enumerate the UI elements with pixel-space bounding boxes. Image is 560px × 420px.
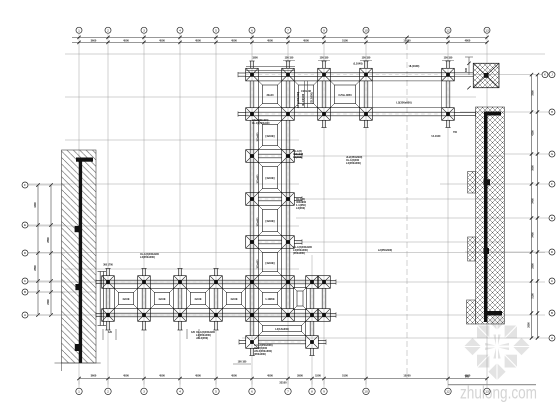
under-arm dim flags [103,329,199,340]
top dimension ticks and text [77,36,488,44]
bottom arm stubs down [105,321,218,330]
bottom dimension line [79,379,536,385]
svg-text:300 1700: 300 1700 [103,265,113,267]
stem bottom column beam [310,321,314,335]
svg-text:XL-1(2)400x900: XL-1(2)400x900 [252,122,270,125]
svg-text:(350x600): (350x600) [293,251,305,255]
svg-text:L2(350x600): L2(350x600) [346,161,361,165]
svg-text:13: 13 [485,28,489,32]
svg-text:(L1040): (L1040) [353,62,362,66]
svg-text:2800: 2800 [47,237,50,243]
vertical grid lines [79,34,487,385]
bay 7-9 vertical labels [297,92,314,109]
right wall pilaster 1 [468,172,476,194]
top dimension lines [72,37,487,42]
svg-text:4500: 4500 [195,374,201,378]
label cluster above bottom arm [140,252,159,259]
top arm capitals row 1 [246,68,455,81]
label cluster below stem bottom [254,343,273,356]
svg-text:JZL2(350x600): JZL2(350x600) [297,92,300,109]
corner column dim flag [465,57,473,89]
svg-text:3: 3 [143,390,145,394]
svg-text:4500: 4500 [123,374,129,378]
svg-text:150 150: 150 150 [285,57,294,60]
svg-text:3100: 3100 [532,293,535,299]
svg-text:600: 600 [465,67,468,72]
bottom arm right stubs [330,279,336,317]
stem bay labels [258,132,275,269]
svg-text:4200: 4200 [532,130,535,136]
label cluster right of stem mid [296,197,307,210]
stem right stubs [294,153,302,244]
svg-text:8: 8 [311,390,313,394]
bottom arm left edge beam [98,272,107,326]
svg-text:13: 13 [485,390,489,394]
bottom arm left stubs to wall [96,279,102,317]
svg-text:3000: 3000 [532,165,535,171]
top arm column beams [250,81,450,108]
svg-text:E: E [551,216,553,220]
svg-text:4500: 4500 [303,38,309,42]
svg-text:2900: 2900 [532,263,535,269]
svg-text:UL(1040): UL(1040) [409,65,420,68]
svg-text:L2(350): L2(350) [293,155,302,159]
svg-text:L2(350x600): L2(350x600) [396,101,411,105]
svg-text:(350x600): (350x600) [254,352,266,356]
svg-text:5100: 5100 [342,38,348,42]
stem coffer bay E-C [258,248,281,275]
label cluster right of line G [346,155,362,165]
svg-text:12: 12 [446,390,450,394]
svg-text:300x600: 300x600 [258,217,260,227]
svg-text:JZL2(350): JZL2(350) [311,92,314,103]
svg-text:10200: 10200 [403,38,411,42]
svg-text:4500: 4500 [231,374,237,378]
svg-text:4: 4 [179,28,181,32]
label cluster below bottom arm left [196,330,215,340]
stem bottom row beam [258,340,305,344]
svg-text:4500: 4500 [231,38,237,42]
top arm stubs down [321,120,450,127]
svg-text:12: 12 [446,28,450,32]
stem bottom stubs down [249,348,314,355]
svg-text:3600: 3600 [91,38,97,42]
svg-text:7: 7 [287,390,289,394]
svg-text:2: 2 [107,28,109,32]
svg-text:4x10E: 4x10E [194,298,202,301]
stem coffer bay G-F [258,162,281,192]
svg-text:L2(350): L2(350) [296,206,305,210]
top arm right stub row 2 [454,111,475,116]
svg-text:4500: 4500 [267,374,273,378]
right dimension ticks and text [528,73,540,340]
horizontal grid lines [28,54,549,338]
svg-text:300x600: 300x600 [258,259,260,269]
svg-text:3: 3 [143,28,145,32]
top arm coffer bay 6-7 [258,81,281,108]
svg-text:4: 4 [179,390,181,394]
svg-text:L2(350x600): L2(350x600) [140,255,155,259]
watermark logo [464,313,530,381]
svg-text:4x10E: 4x10E [122,298,130,301]
left wall column blips [75,226,81,351]
svg-text:300x600: 300x600 [258,132,260,142]
svg-text:[4x10E]: [4x10E] [266,220,275,223]
top arm coffer bay 7-9 [294,81,317,108]
top arm beam to corner column [454,73,473,77]
svg-text:[4x10E]: [4x10E] [266,262,275,265]
svg-text:1: 1 [78,390,80,394]
svg-text:9: 9 [323,28,325,32]
svg-text:B: B [551,311,553,315]
left wall hatch [62,150,97,363]
top arm large bay edge [372,81,441,108]
svg-text:4500: 4500 [159,38,165,42]
dims 180-180 below arm [233,361,251,365]
right wall pilaster 3 [467,300,476,324]
svg-text:L2(3.6x600): L2(3.6x600) [275,328,289,331]
stem column beams [250,120,290,335]
svg-text:30x40: 30x40 [267,94,275,97]
left grid bubbles [22,182,65,318]
svg-text:H: H [551,110,553,114]
bottom arm capitals row B1 [102,276,331,289]
svg-text:4200: 4200 [34,202,37,208]
svg-text:2200: 2200 [47,299,50,305]
svg-text:E: E [24,223,26,227]
svg-text:180 180: 180 180 [238,361,247,364]
svg-text:XL-1(2)400: XL-1(2)400 [302,93,305,106]
right wall hatch [476,107,505,324]
right dimension line [532,75,538,338]
stem bottom capitals [246,336,319,349]
svg-text:F: F [24,183,26,187]
svg-text:C2%L.0850: C2%L.0850 [338,94,352,97]
svg-text:1: 1 [78,28,80,32]
svg-text:10200: 10200 [403,374,411,378]
svg-text:1-1WKE: 1-1WKE [265,298,275,301]
top grid bubbles [76,27,490,33]
svg-text:6: 6 [251,390,253,394]
svg-text:5100: 5100 [342,374,348,378]
svg-text:zhulong.com: zhulong.com [460,382,537,402]
svg-text:3900: 3900 [532,90,535,96]
left wall bottom cut line [55,363,101,371]
bottom arm column beams [106,288,326,308]
stem coffer bay H-G [258,120,281,149]
svg-text:9: 9 [323,390,325,394]
label cluster right of stem lower [293,245,312,255]
svg-text:1500: 1500 [315,374,321,378]
top arm left stubs [238,72,246,117]
bottom arm bay labels [122,298,275,301]
bottom arm stubs up [105,269,218,276]
svg-text:4500: 4500 [123,38,129,42]
svg-text:700: 700 [453,131,458,134]
top arm coffer bay 9-10 [330,81,359,108]
svg-text:[4x10E]: [4x10E] [266,135,275,138]
svg-text:5: 5 [215,390,217,394]
svg-text:900: 900 [465,376,470,379]
left wall thick line [76,158,93,364]
svg-text:10: 10 [364,390,368,394]
svg-text:10: 10 [364,28,368,32]
bottom arm row beams [102,280,331,317]
svg-text:L2(350x600): L2(350x600) [378,249,392,252]
svg-text:4800: 4800 [465,38,471,42]
svg-text:2800: 2800 [34,265,37,271]
svg-text:JZL2(350): JZL2(350) [196,336,208,340]
stem capitals [246,150,295,249]
svg-text:2900: 2900 [297,374,303,378]
svg-text:7: 7 [287,28,289,32]
stem coffer bay F-E [258,205,281,235]
svg-text:5: 5 [215,28,217,32]
right wall column blips [484,179,491,254]
bottom dimension ticks and text [77,374,488,385]
svg-text:F: F [551,182,553,186]
svg-text:4500: 4500 [267,38,273,42]
label cluster right of stem upper [293,149,304,159]
top arm row beams [246,73,455,116]
svg-text:32100: 32100 [279,380,287,384]
left dimension lines [38,185,51,314]
stem row beams [258,154,281,244]
bottom arm coffers [114,288,306,310]
svg-text:1500: 1500 [252,57,258,60]
hatched corner column [473,63,499,87]
top arm bay labels [267,90,353,97]
svg-text:6: 6 [251,28,253,32]
right wall thick line [484,112,502,323]
svg-text:2600: 2600 [528,322,531,328]
bottom arm capitals row B2 [102,309,331,322]
svg-text:B: B [24,290,26,294]
svg-text:2: 2 [107,390,109,394]
svg-text:3400: 3400 [532,198,535,204]
bottom grid bubbles [76,379,490,395]
top arm bay rib [305,81,308,108]
svg-text:150 150: 150 150 [444,57,453,60]
svg-text:4x10E: 4x10E [158,298,166,301]
svg-text:4500: 4500 [195,38,201,42]
stem bottom row stubs sideways [239,339,326,344]
svg-text:3600: 3600 [91,374,97,378]
top arm capitals row 2 [246,108,455,121]
right grid bubbles [542,72,555,341]
left dimension ticks and text [34,183,53,316]
svg-text:UL1040: UL1040 [432,135,442,138]
svg-text:150 150: 150 150 [320,57,329,60]
stem bottom coffer [258,321,305,335]
svg-text:3400: 3400 [532,232,535,238]
svg-text:150 150: 150 150 [362,57,371,60]
stub dims top arm [252,57,454,61]
right wall pilaster 2 [468,237,476,261]
svg-text:4x10E: 4x10E [230,298,238,301]
labels below row 2 [252,119,270,125]
svg-text:300x600: 300x600 [258,174,260,184]
top arm edge band [246,67,295,71]
svg-text:[4x10E]: [4x10E] [266,177,275,180]
svg-text:4500: 4500 [159,374,165,378]
top arm stubs up [249,61,450,68]
